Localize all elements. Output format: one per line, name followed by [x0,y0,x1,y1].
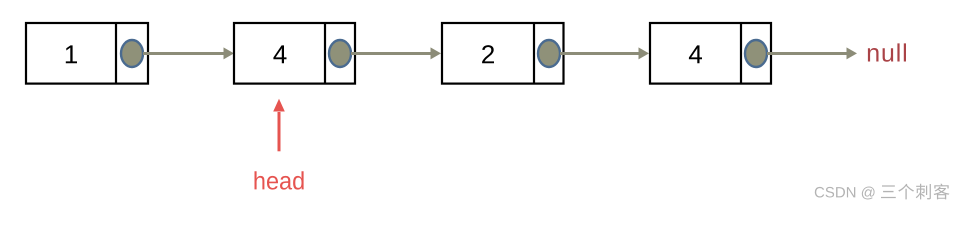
wire N1 to N2 [143,47,234,59]
head label [255,171,304,189]
node N3 value 2 [482,45,494,63]
wire N4 to null [767,47,857,59]
node N3 box [442,23,564,84]
node N2 box [234,23,355,84]
node null label [868,43,906,61]
node N3 pointer dot [538,40,560,67]
wire N3 to N4 [560,47,649,59]
node N4 value 4 [689,45,702,63]
node N2 value 4 [273,45,286,63]
node N1 box [26,23,148,84]
wire N2 to N3 [351,47,441,59]
node N4 pointer dot [745,40,767,67]
node N1 value 1 [66,45,77,63]
head pointer arrow [273,99,285,152]
watermark CSDN @三个刺客 [815,184,950,200]
node N4 box [650,23,771,84]
node N2 pointer dot [329,40,351,67]
node N1 pointer dot [121,40,143,67]
